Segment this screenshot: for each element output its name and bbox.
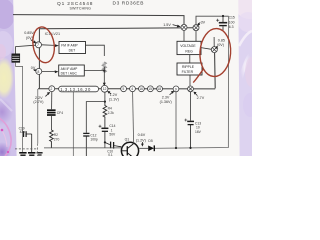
svg-text:RIPPLE: RIPPLE	[182, 65, 195, 69]
header label Q1 2SC4548 SWITCHING	[57, 1, 93, 11]
svg-text:(1.1V): (1.1V)	[109, 98, 119, 102]
wire Q1 collector to pin 4	[133, 92, 134, 143]
transistor Q1	[121, 138, 138, 160]
svg-text:FILTER: FILTER	[182, 70, 194, 74]
capacitor C12	[83, 133, 89, 156]
svg-text:D5: D5	[148, 139, 152, 143]
svg-text:C15: C15	[229, 16, 235, 20]
wire node B to VOLTAGE REG	[183, 30, 185, 41]
annotation 0.6V (1.2V)	[136, 133, 146, 142]
svg-text:100p: 100p	[90, 138, 98, 142]
svg-text:4: 4	[131, 87, 133, 91]
pin 9	[173, 86, 179, 92]
svg-text:0.85: 0.85	[218, 38, 225, 42]
wire coil to pin7	[16, 45, 36, 54]
svg-text:18: 18	[157, 87, 161, 91]
pin 16	[139, 86, 145, 92]
junction dot	[103, 70, 105, 72]
pin group pill 1,3,13,16,20	[59, 86, 99, 92]
svg-text:D3 RD36EB: D3 RD36EB	[113, 0, 145, 6]
svg-text:(2.7V): (2.7V)	[33, 100, 43, 104]
capacitor C14	[99, 118, 109, 142]
wire pin2 down	[51, 92, 53, 110]
svg-text:6.3: 6.3	[229, 25, 234, 29]
VOLTAGE REG box	[177, 41, 201, 54]
resistor R4	[103, 102, 107, 119]
pin 8	[36, 68, 42, 74]
IF coil T1	[12, 54, 20, 63]
annotation 2.3V (1.36V)	[160, 95, 172, 104]
diode D5	[139, 139, 154, 151]
pin 15	[148, 86, 154, 92]
FM IF AMP DET box	[59, 42, 86, 54]
svg-text:100: 100	[229, 20, 235, 24]
svg-text:0.6V: 0.6V	[138, 133, 146, 137]
white schematic scan panel	[0, 0, 252, 156]
svg-text:15: 15	[148, 87, 152, 91]
wire pin7 to FM box with arrow	[42, 44, 56, 47]
svg-text:DET / AGC: DET / AGC	[61, 71, 78, 75]
svg-text:9: 9	[175, 87, 177, 91]
wallpaper background	[0, 0, 252, 156]
junction dot	[104, 141, 106, 143]
IC1 block outline	[39, 28, 196, 89]
svg-text:8: 8	[37, 70, 39, 74]
svg-text:5: 5	[122, 87, 124, 91]
svg-text:43p: 43p	[20, 130, 26, 134]
junction dot	[189, 147, 191, 149]
wire RIPPLE to bus node	[189, 75, 191, 86]
wire AM box right to node	[84, 69, 104, 71]
red reviewer circle right	[193, 27, 232, 82]
svg-text:DET: DET	[69, 49, 76, 53]
svg-text:16V: 16V	[195, 130, 202, 134]
svg-text:(0V): (0V)	[26, 36, 33, 40]
red reviewer circle left	[30, 25, 56, 64]
svg-text:SWITCHING: SWITCHING	[70, 6, 92, 10]
wire CF4 to R2	[50, 116, 52, 130]
svg-text:0.85V: 0.85V	[24, 31, 34, 35]
svg-text:16: 16	[139, 87, 143, 91]
bottom rail left segment	[44, 147, 121, 149]
IC1 bottom edge bus	[38, 88, 215, 90]
svg-text:1.5V: 1.5V	[163, 23, 171, 27]
wire node X down to bus	[214, 53, 217, 89]
wire node X stub up	[213, 37, 215, 47]
capacitor C19	[24, 131, 32, 152]
wire W1 top rail	[13, 15, 184, 25]
wire node A drop	[195, 31, 197, 42]
pin 18	[157, 86, 163, 92]
ceramic filter CF4	[47, 110, 56, 115]
wire VREG right to node X	[201, 48, 211, 50]
wire pin9 down	[175, 92, 177, 148]
wire bus node down to C13	[190, 92, 192, 121]
right node X	[211, 47, 217, 53]
svg-text:7: 7	[37, 43, 39, 47]
pin 2	[49, 86, 55, 92]
svg-text:2: 2	[50, 87, 52, 91]
svg-text:0.1: 0.1	[108, 153, 113, 156]
top node B	[181, 24, 187, 30]
pin 4	[130, 86, 136, 92]
annotation 2.2V (2.7V)	[33, 96, 43, 104]
wire pin8 to AM box with arrow	[42, 70, 55, 72]
svg-text:1,3,13,16,20: 1,3,13,16,20	[60, 87, 91, 92]
svg-text:FM IF AMP: FM IF AMP	[61, 44, 78, 48]
wire below pin12	[104, 92, 106, 101]
svg-text:3V: 3V	[201, 21, 206, 25]
svg-text:270: 270	[54, 137, 60, 141]
IC corner ground drop	[37, 89, 39, 144]
svg-text:12: 12	[103, 87, 107, 91]
junction dot	[104, 101, 106, 103]
svg-text:2.7V: 2.7V	[197, 96, 205, 100]
dashed shield boundary	[15, 144, 38, 156]
header label D3 RD36EB	[113, 0, 145, 6]
RIPPLE FILTER box	[177, 63, 202, 75]
pin 5	[121, 86, 127, 92]
svg-text:REG: REG	[185, 49, 193, 53]
svg-text:AM IF AMP: AM IF AMP	[61, 67, 78, 71]
AM IF AMP DET/AGC box	[59, 65, 85, 76]
capacitor C15	[216, 16, 227, 31]
svg-text:VOLTAGE: VOLTAGE	[180, 44, 196, 48]
resistor R3 smudge	[103, 62, 107, 72]
svg-text:CF4: CF4	[57, 111, 63, 115]
wire node down to pin12	[103, 67, 105, 86]
svg-text:2.3V: 2.3V	[162, 95, 170, 99]
schematic artwork	[0, 0, 252, 156]
wire down to rail	[104, 142, 106, 147]
junction dot C15 tap	[222, 15, 224, 17]
pin 7	[36, 42, 42, 48]
svg-text:(1.36V): (1.36V)	[160, 100, 172, 104]
svg-text:Q1: Q1	[125, 138, 130, 142]
resistor R2	[50, 130, 54, 148]
annotation 1.2V (1.1V)	[109, 93, 119, 102]
wire FM box right to node	[86, 45, 105, 56]
branch wire to C12	[86, 102, 105, 133]
annotation 0.85V (0V) left	[24, 31, 34, 40]
pill ground drop	[72, 92, 74, 156]
svg-text:(0V): (0V)	[217, 43, 224, 47]
bus junction node X	[188, 86, 194, 92]
wire coil bottom to C19	[16, 62, 23, 152]
capacitor C13	[184, 119, 194, 148]
svg-text:2.2k: 2.2k	[108, 111, 115, 115]
svg-text:50V: 50V	[109, 133, 116, 137]
pin 12	[101, 85, 108, 92]
svg-text:(1.2V): (1.2V)	[136, 138, 146, 142]
junction dot	[175, 147, 177, 149]
wire VREG to RIPPLE	[189, 55, 191, 63]
capacitor C10 series to Q1 base	[105, 142, 122, 149]
annotation 0.85 (0V) right	[217, 38, 225, 47]
wire W2 supply loop right	[196, 16, 229, 25]
ground bars	[19, 153, 42, 155]
top node A	[193, 25, 199, 31]
